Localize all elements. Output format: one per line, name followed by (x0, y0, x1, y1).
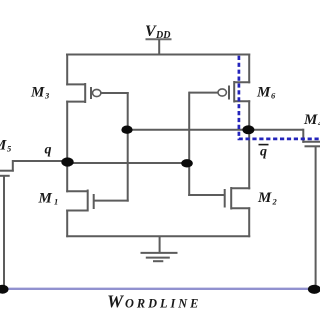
label M6 (256, 85, 276, 101)
svg-text:M: M (256, 85, 271, 101)
transistor M3 (PMOS left pull-up) (66, 83, 101, 103)
wire M2 source down to ground rail (248, 207, 250, 237)
wire top VDD rail (66, 54, 250, 56)
label M2 (257, 190, 278, 207)
transistor M6 (PMOS right pull-up) (218, 81, 250, 103)
svg-text:q: q (45, 143, 52, 158)
svg-text:M: M (0, 138, 7, 154)
svg-text:3: 3 (44, 91, 50, 101)
label M4 (cut at right edge) (303, 112, 320, 128)
wire M6 drain drop to qbar (248, 100, 250, 131)
wire VDD stem (158, 39, 160, 54)
node q (61, 157, 73, 166)
svg-text:ORDLINE: ORDLINE (125, 297, 201, 311)
power label VDD (145, 23, 170, 41)
svg-text:M: M (303, 112, 318, 128)
net label WORDLINE (107, 292, 201, 312)
wordline (blue) (1, 288, 316, 290)
node B (right gates / q cross) (181, 159, 193, 167)
svg-text:M: M (38, 191, 53, 207)
wire M6 gate to right gate line (189, 92, 218, 94)
ground (141, 236, 178, 261)
svg-text:M: M (257, 190, 272, 206)
wire right gate line vertical (188, 92, 190, 196)
wire M2 gate to right gate line (188, 194, 225, 196)
wire cross-couple to q (horizontal) (66, 162, 190, 164)
svg-text:2: 2 (272, 197, 278, 207)
svg-text:6: 6 (271, 91, 276, 101)
wire M3 gate to left gate line (101, 92, 129, 94)
wire left inverter output drop (M3 drain to q) (66, 101, 68, 164)
wire right rail drop to M6 source (248, 54, 250, 84)
transistor M4 (right access, partially off-canvas) (249, 129, 320, 147)
transistor M5 (left access, partially off-canvas) (0, 160, 67, 176)
wire M4 gate down to wordline (315, 146, 317, 289)
svg-text:1: 1 (54, 197, 58, 207)
transistor M1 (NMOS left pull-down) (66, 190, 94, 212)
wire M5 gate down to wordline (3, 176, 5, 289)
power symbol VDD bar (146, 38, 172, 40)
wire qbar node down to M2 drain (248, 129, 250, 189)
label M3 (30, 85, 50, 101)
wire M1 gate to left gate line (94, 200, 129, 202)
feedback path (blue dashed) (239, 56, 320, 139)
svg-text:M: M (30, 85, 45, 101)
wire left gate line vertical (127, 92, 129, 202)
label M1 (38, 191, 59, 207)
transistor M2 (NMOS right pull-down) (225, 187, 251, 210)
node wordline left (0, 285, 9, 294)
node qbar (242, 125, 254, 134)
wire M1 source down to ground rail (66, 210, 68, 238)
svg-text:5: 5 (7, 144, 12, 154)
wire q node down to M1 drain (66, 162, 68, 192)
wire cross-couple to qbar (horizontal) (127, 129, 250, 131)
label M5 (cut at left edge) (0, 138, 12, 154)
svg-text:W: W (107, 292, 125, 312)
svg-text:q: q (260, 145, 267, 160)
wire bottom ground rail (66, 235, 250, 237)
node wordline right (308, 285, 320, 294)
node A (left gates / qbar cross) (121, 126, 132, 134)
wire left rail drop to M3 source (66, 54, 68, 86)
node label qbar (259, 144, 269, 160)
